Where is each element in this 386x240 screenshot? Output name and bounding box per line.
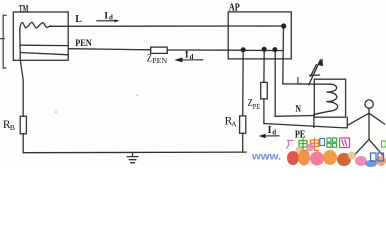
wire: winding left terminal down inside TM [20, 30, 23, 116]
wire: N jog at load box [313, 114, 315, 127]
speck [55, 111, 57, 113]
svg-text:PE: PE [253, 103, 261, 111]
wire: L line to load [283, 83, 330, 85]
wire: L line TM to AP [51, 25, 284, 27]
svg-text:L: L [297, 76, 302, 87]
wire: PE line to casing [264, 117, 347, 127]
svg-text:d: d [190, 53, 194, 61]
svg-text:PEN: PEN [152, 57, 167, 65]
svg-text:N: N [295, 104, 301, 115]
wire: R_B feed and resistor R_B [20, 116, 26, 134]
person [365, 100, 373, 108]
svg-text:I: I [185, 50, 189, 60]
svg-text:B: B [10, 123, 15, 132]
wire: drop to Z_PE [263, 49, 265, 82]
wire: load winding bottom lead [314, 111, 329, 114]
watermark row1 char5 [327, 138, 337, 147]
wire: earth bus [23, 151, 246, 154]
resistor Z_PE [261, 82, 268, 99]
load winding [326, 84, 337, 111]
watermark row1 char6 [340, 138, 350, 148]
svg-text:www.: www. [251, 152, 281, 163]
watermark green bit [382, 141, 386, 147]
svg-text:L: L [75, 14, 82, 25]
watermark row1 char2 [299, 138, 308, 150]
junction node on PEN at Z_PE drop [262, 47, 267, 52]
svg-text:PEN: PEN [75, 39, 92, 49]
ground [127, 152, 138, 162]
junction node on L [281, 23, 286, 28]
svg-text:d: d [109, 14, 113, 22]
wire: PEN line TM to Z_PEN [20, 44, 68, 46]
watermark row1 char1 [286, 141, 293, 149]
watermark row1 char4 fragment [320, 139, 325, 146]
wire: PEN inner lower horizontal [20, 53, 68, 55]
svg-text:AP: AP [229, 2, 240, 13]
watermark blue chars right [371, 153, 384, 161]
distribution panel AP box [228, 12, 291, 59]
fault bolt arrowhead [318, 59, 323, 67]
left margin bracket artifact [0, 15, 6, 68]
speck [136, 94, 138, 96]
resistor R_A [240, 116, 246, 133]
wire: Z_PE down to PE line [263, 99, 265, 124]
wire: N line [275, 115, 314, 118]
svg-text:A: A [231, 119, 237, 128]
svg-text:PE: PE [295, 130, 306, 141]
svg-text:d: d [272, 129, 276, 137]
arrow I_d on L line [96, 19, 119, 22]
wire: L drop [282, 26, 285, 84]
svg-text:TM: TM [19, 4, 29, 15]
svg-text:I: I [268, 125, 272, 136]
junction node on PEN at N drop [272, 47, 277, 52]
transformer TM winding [20, 22, 51, 30]
arrow I_d bottom (left pointing) [259, 134, 280, 138]
wire: PEN exit stub [67, 48, 69, 50]
transformer TM box [13, 12, 68, 60]
load appliance box [314, 79, 345, 117]
wire: R_A to earth bus [242, 133, 244, 152]
watermark row1 char3 [311, 138, 320, 151]
wire: PEN line Z_PEN to AP [68, 49, 243, 51]
wire: drop to R_A [242, 50, 245, 116]
svg-text:I: I [104, 11, 108, 21]
wire: N drop [274, 50, 276, 116]
wire: R_B to earth bus [22, 134, 24, 153]
arrow I_d mid (left pointing) [174, 57, 203, 62]
junction node on PEN at R_A drop [241, 47, 246, 52]
fault bolt at load corner [309, 60, 321, 85]
watermark mascot blobs [287, 144, 386, 168]
wire: PEN bus inside AP [243, 49, 283, 51]
resistor Z_PEN [151, 47, 168, 53]
